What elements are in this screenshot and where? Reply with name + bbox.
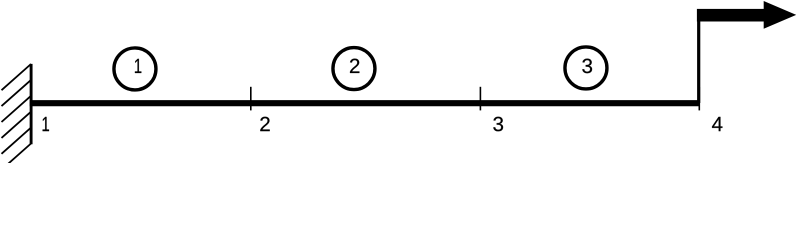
force arrow shaft: [697, 9, 766, 22]
fixed support hatch line 3: [2, 96, 32, 122]
element 3 circle: [565, 47, 607, 89]
fixed support hatch line 6: [2, 144, 32, 170]
node 3 label: [493, 117, 503, 132]
fixed support hatch line 2: [2, 80, 32, 106]
node 2 label: [260, 117, 269, 131]
element 2 circle: [333, 48, 375, 90]
node 3 tick: [479, 87, 481, 111]
fixed support wall line: [30, 64, 33, 144]
fixed support hatch line 1: [2, 64, 32, 90]
node 4 label: [712, 117, 722, 131]
bar (elements 1-3 member): [30, 100, 700, 106]
node 2 tick: [250, 87, 252, 111]
element 3 number: [582, 59, 592, 74]
element 1 number: [135, 59, 141, 73]
fixed support hatch line 4: [2, 112, 32, 138]
element 1 circle: [114, 48, 156, 90]
element 2 number: [350, 59, 359, 73]
node 4 tick: [698, 87, 700, 110]
node 1 label: [43, 117, 49, 131]
force arrow riser line: [697, 9, 700, 103]
fixed support hatch line 5: [2, 128, 32, 154]
force arrow head: [764, 1, 797, 29]
